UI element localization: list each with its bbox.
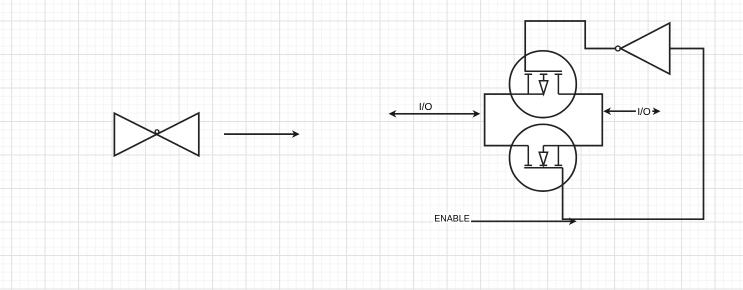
svg-text:I/O: I/O — [419, 102, 433, 113]
svg-text:ENABLE: ENABLE — [434, 213, 470, 223]
svg-text:I/O: I/O — [637, 107, 651, 118]
